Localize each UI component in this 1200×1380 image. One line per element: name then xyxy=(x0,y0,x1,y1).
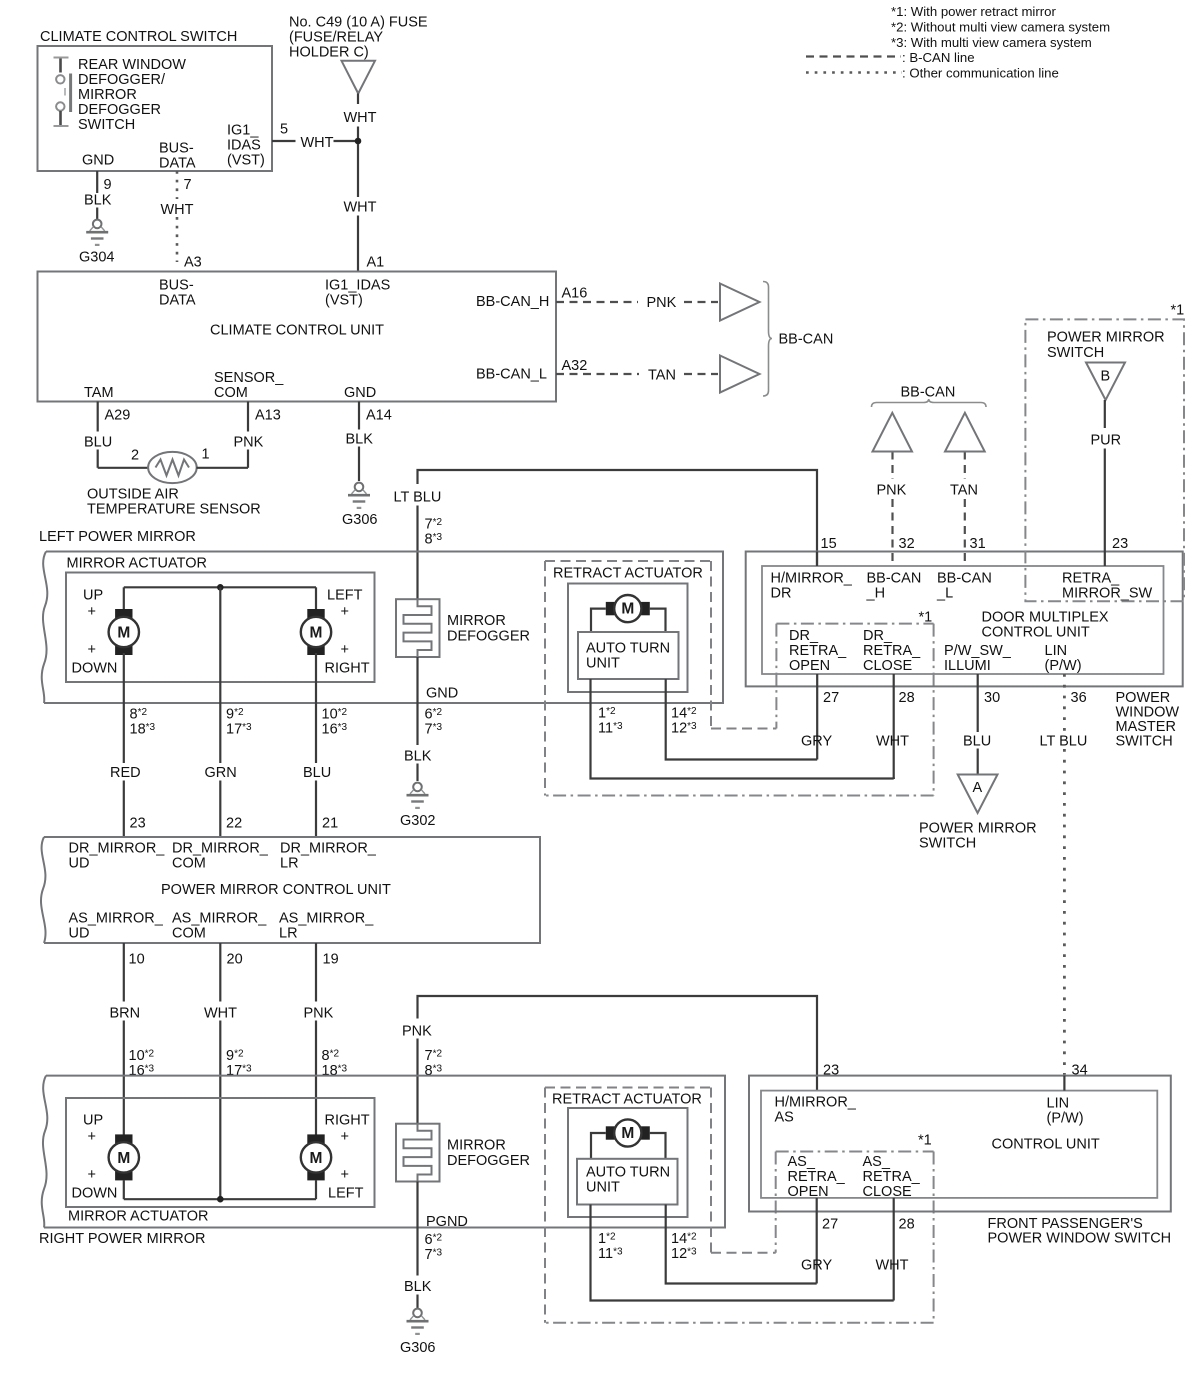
svg-text:HOLDER C): HOLDER C) xyxy=(289,45,369,61)
svg-text:No. C49 (10 A) FUSE: No. C49 (10 A) FUSE xyxy=(289,15,428,31)
door multiplex control unit inner box xyxy=(762,566,1164,674)
ground G306 (right mirror) xyxy=(413,1309,422,1318)
wire motor M6 to auto turn unit (bottom) xyxy=(591,1133,606,1159)
svg-text:MIRROR: MIRROR xyxy=(447,613,506,629)
connector arrow A (triangle down) xyxy=(958,775,998,814)
svg-text:34: 34 xyxy=(1072,1063,1088,1079)
svg-text:SWITCH: SWITCH xyxy=(1116,734,1173,750)
svg-text:A: A xyxy=(973,780,983,796)
svg-text:UNIT: UNIT xyxy=(586,1180,620,1196)
svg-text:OPEN: OPEN xyxy=(789,658,830,674)
svg-text:22: 22 xyxy=(226,816,242,832)
mirror defogger (right) xyxy=(396,1124,440,1182)
svg-text:AS_MIRROR_: AS_MIRROR_ xyxy=(172,911,267,927)
wire H/MIRROR_AS to right defogger PNK (horizontal) xyxy=(418,996,818,1076)
svg-text:DR: DR xyxy=(771,586,792,602)
svg-text:RETRACT ACTUATOR: RETRACT ACTUATOR xyxy=(552,1092,702,1108)
power mirror switch option box dash-dot xyxy=(1025,319,1184,601)
wire junction down to A1 xyxy=(357,144,359,197)
svg-text:MIRROR: MIRROR xyxy=(447,1138,506,1154)
svg-text:IG1_IDAS: IG1_IDAS xyxy=(325,278,390,294)
svg-text:AS: AS xyxy=(775,1110,794,1126)
svg-text:DATA: DATA xyxy=(159,293,196,309)
svg-text:1: 1 xyxy=(202,447,210,463)
svg-text:UD: UD xyxy=(69,926,90,942)
svg-text:8*2: 8*2 xyxy=(130,707,148,723)
svg-text:+: + xyxy=(88,1129,96,1145)
svg-text:TAM: TAM xyxy=(84,385,114,401)
svg-text:DR_: DR_ xyxy=(789,628,819,644)
svg-text:AS_MIRROR_: AS_MIRROR_ xyxy=(69,911,164,927)
wire H/MIRROR_DR to mirror defogger LT BLU (horizontal) xyxy=(418,470,818,552)
svg-text:CONTROL UNIT: CONTROL UNIT xyxy=(982,625,1090,641)
svg-text:CLOSE: CLOSE xyxy=(863,1184,912,1200)
svg-text:19: 19 xyxy=(323,952,339,968)
svg-text:(FUSE/RELAY: (FUSE/RELAY xyxy=(289,30,383,46)
svg-text:LT BLU: LT BLU xyxy=(1040,734,1088,750)
svg-text:RETRA_: RETRA_ xyxy=(788,1169,846,1185)
front passenger power window switch outer box xyxy=(749,1076,1171,1212)
svg-text:PNK: PNK xyxy=(234,435,264,451)
svg-text:BLU: BLU xyxy=(303,765,331,781)
wire motor M2 down to pin 21 BLU xyxy=(315,653,317,763)
svg-text:A16: A16 xyxy=(562,286,588,302)
wire auto turn unit pin 1 to pin 28 WHT xyxy=(591,679,894,779)
wire pin 28 WHT (passenger) xyxy=(893,1198,895,1301)
svg-text:GRN: GRN xyxy=(205,765,237,781)
svg-text:21: 21 xyxy=(322,816,338,832)
svg-text:*1: *1 xyxy=(919,610,933,626)
wire pin 20 WHT down to right mirror busbar xyxy=(219,943,221,1002)
svg-text:27: 27 xyxy=(822,1217,838,1233)
svg-text:G302: G302 xyxy=(400,813,435,829)
wire pin 28 WHT (master switch) xyxy=(893,674,895,779)
busbar wire motors bottom (right mirror) xyxy=(124,1198,316,1200)
svg-text:: B-CAN line: : B-CAN line xyxy=(902,50,975,65)
svg-text:28: 28 xyxy=(899,1217,915,1233)
svg-text:2: 2 xyxy=(131,448,139,464)
svg-text:*2: Without multi view camera: *2: Without multi view camera system xyxy=(891,20,1110,35)
svg-text:GRY: GRY xyxy=(801,734,832,750)
ground G306 (climate unit) xyxy=(355,483,364,492)
connector arrow B (triangle down) xyxy=(1086,363,1125,401)
svg-text:AS_: AS_ xyxy=(863,1154,891,1170)
mirror actuator inner box (left) xyxy=(66,573,375,683)
retract actuator dashed box (bottom) xyxy=(545,1087,711,1089)
svg-text:+: + xyxy=(341,642,349,658)
svg-text:BB-CAN: BB-CAN xyxy=(867,571,922,587)
svg-text:15: 15 xyxy=(821,536,837,552)
svg-text:GND: GND xyxy=(426,686,458,702)
svg-text:23: 23 xyxy=(1112,536,1128,552)
fuse C49 symbol (triangle) xyxy=(342,61,376,94)
junction node busbar (left mirror) xyxy=(217,584,224,591)
dashed link retract box to option box (bottom) xyxy=(711,1252,776,1254)
svg-text:(P/W): (P/W) xyxy=(1045,658,1082,674)
svg-text:5: 5 xyxy=(280,122,288,138)
svg-text:+: + xyxy=(341,604,349,620)
svg-text:11*3: 11*3 xyxy=(598,721,623,737)
svg-text:10*2: 10*2 xyxy=(129,1048,155,1064)
svg-text:SWITCH: SWITCH xyxy=(919,836,976,852)
svg-text:DEFOGGER/: DEFOGGER/ xyxy=(78,72,166,88)
wire motor M3 to auto turn unit xyxy=(591,609,606,632)
svg-text:(VST): (VST) xyxy=(325,293,363,309)
svg-text:DOOR MULTIPLEX: DOOR MULTIPLEX xyxy=(982,610,1109,626)
svg-text:LIN: LIN xyxy=(1047,1096,1070,1112)
svg-text:LR: LR xyxy=(279,926,298,942)
svg-text:BLK: BLK xyxy=(84,193,112,209)
wire auto turn pin 14 to pin 27 GRY (bottom) xyxy=(666,1205,817,1284)
svg-text:M: M xyxy=(310,624,323,641)
wire fuse to junction WHT xyxy=(357,94,359,105)
option *1 enclosure dash-dot (bottom) xyxy=(775,1152,777,1253)
svg-text:POWER MIRROR CONTROL UNIT: POWER MIRROR CONTROL UNIT xyxy=(161,882,391,898)
auto turn unit box (top) xyxy=(578,632,679,679)
svg-text:DR_MIRROR_: DR_MIRROR_ xyxy=(172,841,269,857)
svg-text:PNK: PNK xyxy=(877,483,907,499)
svg-text:WHT: WHT xyxy=(344,200,377,216)
svg-text:BUS-: BUS- xyxy=(159,141,194,157)
svg-text:9: 9 xyxy=(104,177,112,193)
svg-text:7: 7 xyxy=(184,177,192,193)
svg-text:PUR: PUR xyxy=(1091,433,1122,449)
svg-text:RETRA_: RETRA_ xyxy=(789,643,847,659)
svg-text:BRN: BRN xyxy=(110,1006,141,1022)
wire pin A29 BLU xyxy=(97,402,99,432)
svg-text:IDAS: IDAS xyxy=(227,138,261,154)
svg-text:BLU: BLU xyxy=(84,435,112,451)
svg-text:DR_: DR_ xyxy=(863,628,893,644)
auto turn unit box (bottom) xyxy=(577,1159,678,1205)
svg-text:9*2: 9*2 xyxy=(226,1048,244,1064)
svg-text:BB-CAN_L: BB-CAN_L xyxy=(476,367,547,383)
svg-text:DR_MIRROR_: DR_MIRROR_ xyxy=(280,841,377,857)
wire BB-CAN_H dashed PNK xyxy=(556,301,638,303)
svg-text:A13: A13 xyxy=(255,408,281,424)
wire auto turn unit pin 14 to pin 27 GRY xyxy=(666,679,818,760)
svg-text:WHT: WHT xyxy=(301,135,334,151)
svg-text:WHT: WHT xyxy=(204,1006,237,1022)
svg-text:TAN: TAN xyxy=(648,368,676,384)
svg-text:RETRA_: RETRA_ xyxy=(1062,571,1120,587)
wire pin 30 BLU to connector A xyxy=(977,674,979,732)
svg-text:7*2: 7*2 xyxy=(425,1048,443,1064)
svg-text:GND: GND xyxy=(344,385,376,401)
svg-text:PGND: PGND xyxy=(426,1214,468,1230)
svg-text:+: + xyxy=(341,1129,349,1145)
svg-text:36: 36 xyxy=(1071,690,1087,706)
connector arrow A16 (triangle right) xyxy=(720,284,760,321)
rear window defogger/mirror defogger switch symbol SW1 xyxy=(54,58,71,127)
svg-text:POWER MIRROR: POWER MIRROR xyxy=(919,821,1037,837)
svg-text:BLK: BLK xyxy=(404,1279,432,1295)
wire pin A14 BLK to ground xyxy=(358,402,360,430)
mirror actuator inner box (right) xyxy=(66,1098,375,1207)
svg-text:: Other communication line: : Other communication line xyxy=(902,66,1059,81)
svg-text:6*2: 6*2 xyxy=(425,707,443,723)
wire pin 34 stub (passenger) xyxy=(1063,1076,1065,1091)
svg-text:BLU: BLU xyxy=(963,734,991,750)
svg-text:+: + xyxy=(341,1167,349,1183)
wire switch pin 9 to ground xyxy=(96,171,98,193)
svg-text:LEFT: LEFT xyxy=(328,1186,364,1202)
wire auto turn pin 1 to pin 28 WHT (bottom) xyxy=(591,1205,894,1301)
svg-text:H/MIRROR_: H/MIRROR_ xyxy=(771,571,853,587)
svg-text:(VST): (VST) xyxy=(227,153,265,169)
svg-text:PNK: PNK xyxy=(647,295,677,311)
svg-text:WHT: WHT xyxy=(876,734,909,750)
left power mirror outer box (wavy left edge) xyxy=(44,552,723,704)
svg-text:A32: A32 xyxy=(562,358,588,374)
motor M3 retract (top) xyxy=(606,602,616,615)
retract actuator inner box (top) xyxy=(568,584,688,693)
svg-text:G306: G306 xyxy=(400,1340,435,1356)
svg-text:27: 27 xyxy=(823,690,839,706)
svg-text:9*2: 9*2 xyxy=(226,707,244,723)
svg-text:14*2: 14*2 xyxy=(671,1231,697,1247)
legend other communication line sample xyxy=(806,71,902,74)
svg-text:+: + xyxy=(88,604,96,620)
svg-text:OUTSIDE AIR: OUTSIDE AIR xyxy=(87,487,179,503)
svg-text:BB-CAN: BB-CAN xyxy=(779,332,834,348)
brace BB-CAN top xyxy=(872,399,987,407)
svg-text:M: M xyxy=(117,624,130,641)
svg-text:23: 23 xyxy=(130,816,146,832)
svg-text:UP: UP xyxy=(83,1113,103,1129)
svg-text:30: 30 xyxy=(984,690,1000,706)
svg-text:BB-CAN: BB-CAN xyxy=(937,571,992,587)
connector arrow 32 (triangle up) xyxy=(873,413,913,452)
wire BB-CAN PNK dashed pin 32 xyxy=(891,452,893,480)
svg-text:A1: A1 xyxy=(367,255,385,271)
svg-text:+: + xyxy=(88,642,96,658)
svg-text:BLK: BLK xyxy=(404,749,432,765)
svg-text:A3: A3 xyxy=(184,255,202,271)
pin 15 stub xyxy=(816,552,818,567)
svg-text:DOWN: DOWN xyxy=(72,1186,118,1202)
climate control switch box xyxy=(38,46,273,171)
svg-text:A29: A29 xyxy=(105,408,131,424)
svg-text:TEMPERATURE SENSOR: TEMPERATURE SENSOR xyxy=(87,502,261,518)
svg-text:DATA: DATA xyxy=(159,156,196,172)
svg-text:CLOSE: CLOSE xyxy=(863,658,912,674)
wire sensor pin1 to A13 PNK xyxy=(197,467,249,469)
wire pin 27 GRY (passenger) xyxy=(816,1198,818,1284)
svg-text:G304: G304 xyxy=(79,250,114,266)
wire pin 36 LIN dotted LT BLU xyxy=(1063,674,1066,732)
svg-text:LEFT POWER MIRROR: LEFT POWER MIRROR xyxy=(39,529,196,545)
svg-text:BUS-: BUS- xyxy=(159,278,194,294)
svg-text:AS_: AS_ xyxy=(788,1154,816,1170)
svg-text:OPEN: OPEN xyxy=(788,1184,829,1200)
svg-text:DOWN: DOWN xyxy=(72,661,118,677)
junction node fuse/IG1 wire xyxy=(355,138,362,145)
svg-text:MIRROR ACTUATOR: MIRROR ACTUATOR xyxy=(68,1209,208,1225)
wire switch pin 5 to fuse junction WHT xyxy=(272,140,296,142)
svg-text:PNK: PNK xyxy=(402,1024,432,1040)
svg-text:+: + xyxy=(88,1167,96,1183)
svg-text:1*2: 1*2 xyxy=(598,1231,616,1247)
svg-text:UP: UP xyxy=(83,588,103,604)
svg-text:CLIMATE CONTROL SWITCH: CLIMATE CONTROL SWITCH xyxy=(40,29,237,45)
busbar wire motors top (left mirror) xyxy=(124,586,316,588)
svg-text:M: M xyxy=(310,1150,323,1167)
svg-text:DEFOGGER: DEFOGGER xyxy=(78,102,161,118)
mirror defogger (left) xyxy=(396,599,440,657)
brace BB-CAN right xyxy=(763,282,772,397)
svg-text:LEFT: LEFT xyxy=(327,588,363,604)
svg-text:CONTROL UNIT: CONTROL UNIT xyxy=(992,1137,1100,1153)
svg-text:20: 20 xyxy=(227,952,243,968)
motor M2 left/right (left mirror) xyxy=(307,609,324,619)
svg-text:RED: RED xyxy=(110,765,141,781)
svg-text:12*3: 12*3 xyxy=(671,721,697,737)
svg-text:WHT: WHT xyxy=(876,1258,909,1274)
svg-text:SWITCH: SWITCH xyxy=(1047,345,1104,361)
svg-text:RETRA_: RETRA_ xyxy=(863,643,921,659)
svg-text:P/W_SW_: P/W_SW_ xyxy=(944,643,1012,659)
svg-text:LR: LR xyxy=(280,856,299,872)
svg-text:CLIMATE CONTROL UNIT: CLIMATE CONTROL UNIT xyxy=(210,323,384,339)
svg-text:18*3: 18*3 xyxy=(130,722,156,738)
climate control unit box xyxy=(38,272,557,402)
wire switch pin 7 BUS-DATA dotted xyxy=(176,171,179,199)
power window master switch outer box xyxy=(746,552,1183,687)
svg-text:11*3: 11*3 xyxy=(598,1246,623,1262)
svg-text:GND: GND xyxy=(82,153,114,169)
svg-text:8*2: 8*2 xyxy=(322,1048,340,1064)
connector arrow 31 (triangle up) xyxy=(945,413,985,452)
svg-text:WHT: WHT xyxy=(161,202,194,218)
svg-text:B: B xyxy=(1101,369,1111,385)
svg-text:7*2: 7*2 xyxy=(425,517,443,533)
wire connector B to pin 23 PUR xyxy=(1104,400,1106,428)
svg-text:MIRROR_SW: MIRROR_SW xyxy=(1062,586,1153,602)
svg-text:DEFOGGER: DEFOGGER xyxy=(447,629,530,645)
motor M4 up/down (right mirror) xyxy=(115,1134,132,1144)
svg-text:(P/W): (P/W) xyxy=(1047,1111,1084,1127)
legend B-CAN line sample xyxy=(806,55,901,57)
svg-text:RIGHT: RIGHT xyxy=(325,661,370,677)
pin 23 stub (passenger switch) xyxy=(816,1076,818,1091)
svg-text:AUTO TURN: AUTO TURN xyxy=(586,1165,670,1181)
wire BB-CAN TAN dashed pin 31 xyxy=(964,452,966,480)
power mirror control unit box (wavy left edge) xyxy=(44,837,540,943)
svg-text:_L: _L xyxy=(936,586,953,602)
svg-text:14*2: 14*2 xyxy=(671,706,697,722)
svg-text:*1: With power retract mirror: *1: With power retract mirror xyxy=(891,4,1056,19)
svg-text:A14: A14 xyxy=(366,408,392,424)
ground G302 xyxy=(413,783,422,792)
svg-text:28: 28 xyxy=(899,690,915,706)
svg-text:BB-CAN_H: BB-CAN_H xyxy=(476,294,549,310)
retract actuator inner box (bottom) xyxy=(568,1108,688,1217)
svg-text:10*2: 10*2 xyxy=(322,707,348,723)
svg-text:ILLUMI: ILLUMI xyxy=(944,658,991,674)
connector arrow A32 (triangle right) xyxy=(720,356,760,393)
svg-text:7*3: 7*3 xyxy=(425,722,443,738)
svg-text:8*3: 8*3 xyxy=(425,532,443,548)
svg-text:M: M xyxy=(621,601,634,618)
svg-text:WHT: WHT xyxy=(344,110,377,126)
svg-text:TAN: TAN xyxy=(950,483,978,499)
svg-text:REAR WINDOW: REAR WINDOW xyxy=(78,57,186,73)
wire pin 19 PNK down to right mirror motor xyxy=(315,943,317,1002)
svg-text:SENSOR_: SENSOR_ xyxy=(214,370,284,386)
svg-text:31: 31 xyxy=(970,536,986,552)
svg-text:32: 32 xyxy=(899,536,915,552)
wire right defogger to G306 BLK xyxy=(416,1182,418,1276)
svg-text:M: M xyxy=(117,1150,130,1167)
svg-text:6*2: 6*2 xyxy=(425,1232,443,1248)
svg-text:10: 10 xyxy=(129,952,145,968)
svg-text:LT BLU: LT BLU xyxy=(394,490,442,506)
svg-text:MIRROR: MIRROR xyxy=(78,87,137,103)
motor M5 right/left (right mirror) xyxy=(307,1134,324,1144)
wire PNK down to right defogger xyxy=(416,1039,418,1124)
retract actuator dashed box (top) xyxy=(545,560,711,562)
svg-text:AUTO TURN: AUTO TURN xyxy=(586,641,670,657)
svg-text:*1: *1 xyxy=(1171,303,1185,319)
wire junction column GRN segment xyxy=(219,781,221,838)
svg-text:DEFOGGER: DEFOGGER xyxy=(447,1153,530,1169)
svg-text:LIN: LIN xyxy=(1045,643,1068,659)
svg-text:PNK: PNK xyxy=(304,1006,334,1022)
motor M6 retract (bottom) xyxy=(606,1126,616,1139)
wire pin 10 BRN down to right mirror motor xyxy=(123,943,125,1002)
wire motor M1 down to pin 23 RED xyxy=(123,653,125,763)
wire LT BLU down to defogger xyxy=(416,506,418,600)
svg-text:H/MIRROR_: H/MIRROR_ xyxy=(775,1095,857,1111)
svg-text:RIGHT POWER MIRROR: RIGHT POWER MIRROR xyxy=(39,1231,205,1247)
option *1 enclosure dash-dot (top) xyxy=(775,624,777,729)
svg-text:GRY: GRY xyxy=(801,1258,832,1274)
svg-text:RETRACT ACTUATOR: RETRACT ACTUATOR xyxy=(553,566,703,582)
right power mirror outer box (wavy left edge) xyxy=(44,1076,725,1228)
svg-text:17*3: 17*3 xyxy=(226,722,252,738)
svg-text:DR_MIRROR_: DR_MIRROR_ xyxy=(69,841,166,857)
svg-text:7*3: 7*3 xyxy=(425,1247,443,1263)
svg-text:BLK: BLK xyxy=(346,432,374,448)
wire BB-CAN_L dashed TAN xyxy=(556,373,639,375)
svg-text:COM: COM xyxy=(214,385,248,401)
svg-text:G306: G306 xyxy=(342,512,377,528)
svg-text:UNIT: UNIT xyxy=(586,656,620,672)
junction node busbar (right mirror) xyxy=(217,1196,224,1203)
wire pin 27 GRY (master switch) xyxy=(816,674,818,760)
wire to sensor pin 2 xyxy=(98,467,149,469)
svg-text:SWITCH: SWITCH xyxy=(78,117,135,133)
outside air temperature sensor (thermistor) xyxy=(148,452,197,483)
svg-text:COM: COM xyxy=(172,926,206,942)
svg-text:RIGHT: RIGHT xyxy=(325,1113,370,1129)
svg-text:POWER MIRROR: POWER MIRROR xyxy=(1047,330,1165,346)
svg-text:POWER WINDOW SWITCH: POWER WINDOW SWITCH xyxy=(988,1231,1172,1247)
wire defogger to G302 BLK xyxy=(416,657,418,745)
svg-text:RETRA_: RETRA_ xyxy=(863,1169,921,1185)
svg-text:AS_MIRROR_: AS_MIRROR_ xyxy=(279,911,374,927)
svg-text:16*3: 16*3 xyxy=(322,722,348,738)
svg-text:_H: _H xyxy=(866,586,886,602)
svg-text:COM: COM xyxy=(172,856,206,872)
svg-text:M: M xyxy=(621,1125,634,1142)
svg-text:1*2: 1*2 xyxy=(598,706,616,722)
svg-text:MIRROR ACTUATOR: MIRROR ACTUATOR xyxy=(67,556,207,572)
pin 15 inner stub xyxy=(816,552,818,567)
svg-text:*1: *1 xyxy=(918,1133,932,1149)
svg-text:*3: With multi view camera sys: *3: With multi view camera system xyxy=(891,35,1092,50)
